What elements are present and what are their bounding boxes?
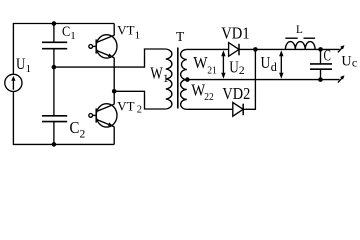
svg-text:C: C — [70, 118, 80, 137]
transistor VT1 — [96, 35, 117, 58]
svg-text:VT: VT — [117, 23, 134, 37]
arrow Ud — [280, 53, 282, 76]
transformer core — [177, 48, 179, 109]
svg-text:VD2: VD2 — [222, 84, 250, 103]
node top C1 — [52, 21, 57, 26]
wire C1 upper — [53, 24, 55, 42]
svg-text:U: U — [16, 56, 25, 73]
svg-text:1: 1 — [135, 30, 141, 42]
svg-text:1: 1 — [70, 30, 76, 42]
node after L — [318, 47, 323, 52]
wire left vertical top — [12, 24, 14, 75]
wire bottom rail — [13, 143, 114, 145]
source U1 — [5, 74, 22, 91]
wire C2 upper — [53, 67, 55, 115]
svg-text:21: 21 — [207, 64, 217, 76]
svg-text:U: U — [341, 53, 351, 70]
node center tap — [185, 77, 190, 82]
svg-text:c: c — [352, 56, 357, 70]
wire VT2 emitter riser — [113, 127, 115, 145]
svg-text:22: 22 — [204, 91, 214, 103]
svg-text:U: U — [261, 53, 271, 72]
node bottom — [52, 142, 57, 147]
diode VD1 — [229, 43, 239, 57]
svg-text:VD1: VD1 — [221, 24, 249, 43]
node mid caps — [52, 65, 57, 70]
inductor L — [285, 42, 315, 50]
svg-text:U: U — [229, 58, 239, 77]
wire top rail — [13, 23, 114, 25]
svg-text:2: 2 — [80, 129, 86, 141]
transformer primary W1 — [166, 49, 172, 109]
svg-text:2: 2 — [137, 105, 142, 116]
inductor core bars — [285, 37, 297, 39]
arrow U2 — [222, 53, 224, 76]
wire VD2 riser — [243, 49, 255, 109]
wire secondary bottom — [187, 108, 233, 110]
svg-text:T: T — [176, 29, 185, 44]
svg-text:VT: VT — [117, 99, 134, 113]
wire center tap rail — [187, 79, 339, 81]
wire VT1 collector riser — [113, 24, 115, 36]
wire secondary top — [187, 48, 229, 50]
wire VD1 to output — [239, 48, 340, 50]
svg-text:2: 2 — [239, 65, 245, 77]
svg-text:C: C — [324, 47, 331, 64]
svg-text:W: W — [193, 53, 208, 72]
node rectifier output — [253, 47, 258, 52]
wire node A to transformer primary bottom — [114, 91, 166, 109]
wire left vertical bottom — [12, 91, 14, 144]
output terminal top — [338, 47, 343, 53]
transistor VT2 — [96, 104, 117, 127]
transformer secondary W22 — [181, 80, 187, 110]
capacitor C2 — [42, 115, 67, 117]
diode VD2 — [233, 103, 243, 117]
wire C1 lower — [53, 49, 55, 67]
node C bottom — [318, 77, 323, 82]
svg-text:d: d — [271, 60, 277, 74]
capacitor C branch — [320, 49, 322, 63]
svg-text:W: W — [150, 63, 163, 82]
wire C2 lower — [53, 122, 55, 144]
wire mid to transformer primary top — [54, 49, 166, 67]
capacitor C1 — [42, 41, 67, 43]
svg-text:1: 1 — [163, 73, 169, 85]
transformer secondary W21 — [181, 49, 187, 79]
output terminal bottom — [338, 77, 343, 83]
node A — [112, 89, 117, 94]
svg-text:C: C — [62, 24, 70, 40]
svg-text:1: 1 — [26, 63, 32, 75]
svg-text:L: L — [296, 24, 303, 36]
wire VT1 emitter to VT2 collector — [113, 58, 115, 105]
